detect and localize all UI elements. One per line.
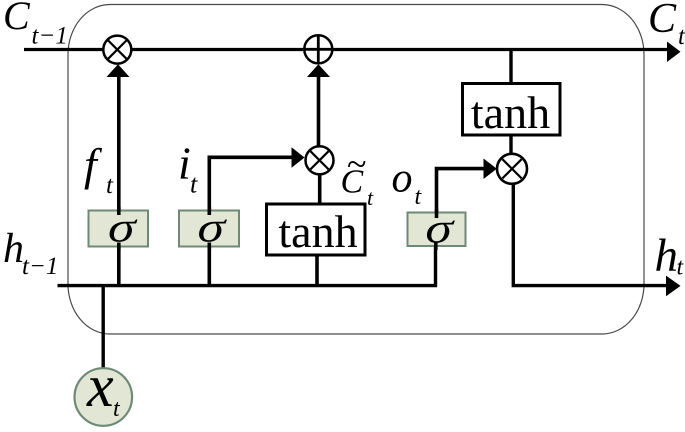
label C_t — [648, 0, 685, 50]
wire h_t output (from multiply down and right) — [513, 183, 668, 286]
cell boundary rounded rectangle — [68, 5, 644, 335]
tanh box middle (candidate) — [267, 204, 366, 257]
svg-text:tanh: tanh — [278, 206, 357, 257]
label i_t — [178, 138, 198, 199]
label h_t — [655, 230, 685, 282]
wire tanh-mid bottom to h-line — [315, 253, 319, 287]
svg-text:C: C — [3, 0, 31, 38]
svg-text:~: ~ — [347, 144, 366, 184]
arrowhead f into multiply — [107, 64, 130, 77]
svg-text:t−1: t−1 — [22, 253, 58, 280]
wire o (sigma3 up, elbow right into multiply3) — [437, 169, 486, 214]
svg-text:o: o — [392, 156, 413, 202]
label C~_t (candidate) — [341, 144, 375, 210]
arrowhead C_t output — [667, 42, 681, 63]
svg-text:i: i — [178, 138, 191, 189]
wire multiply2 down to tanh box — [318, 173, 322, 205]
multiply node 3 (output gate) — [497, 154, 527, 184]
arrowhead o into multiply3 — [484, 159, 497, 180]
svg-text:t: t — [190, 170, 198, 199]
wire i (sigma2 up, elbow right into multiply) — [209, 157, 293, 287]
sigma box 2 (input gate) — [179, 204, 239, 252]
wire candidate up from multiply2 to add — [317, 77, 321, 147]
svg-text:t: t — [367, 185, 374, 210]
svg-text:t−1: t−1 — [32, 23, 68, 50]
sigma box 1 (forget gate) — [89, 204, 149, 252]
multiply node 2 (input x candidate) — [306, 146, 334, 174]
svg-text:tanh: tanh — [471, 87, 550, 138]
wire x_t up to h-line — [101, 285, 104, 369]
wire f (sigma1 vertical through box to h-line) — [117, 75, 121, 287]
arrowhead h_t output — [666, 276, 681, 297]
wire tanh-right bottom to multiply3 — [509, 134, 512, 155]
svg-text:t: t — [678, 23, 685, 50]
label C_t-1 — [3, 0, 68, 50]
wire h-line (h_t-1 bottom horizontal) — [58, 246, 436, 286]
x_t input circle — [75, 353, 133, 426]
arrowhead i into multiply — [292, 147, 305, 168]
svg-text:C: C — [648, 0, 677, 42]
label o_t — [392, 156, 423, 211]
svg-text:h: h — [3, 226, 24, 272]
label f_t — [84, 139, 114, 199]
wire C-line down to tanh-right box — [509, 51, 512, 85]
arrowhead into add — [307, 64, 330, 77]
tanh box right (cell output) — [463, 84, 561, 139]
svg-text:x: x — [86, 353, 114, 419]
svg-text:t: t — [106, 172, 114, 199]
label h_t-1 — [3, 226, 58, 280]
multiply node 1 (forget gate, on C-line) — [103, 36, 131, 64]
sigma box 3 (output gate) — [408, 205, 466, 253]
wire C-line (cell state, top horizontal) — [24, 48, 669, 51]
svg-text:h: h — [655, 230, 679, 282]
add node (on C-line) — [304, 35, 332, 63]
